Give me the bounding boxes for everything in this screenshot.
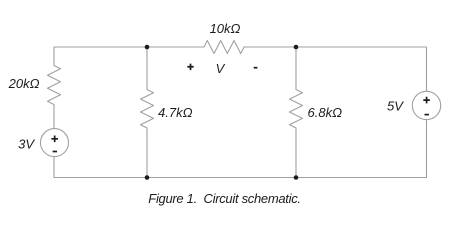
wire: middle branch 2 bottom [295, 128, 297, 178]
wire: top-right segment [244, 46, 427, 48]
svg-text:Figure 1. Circuit schematic.: Figure 1. Circuit schematic. [148, 191, 300, 206]
svg-text:3V: 3V [18, 137, 35, 152]
wire: middle branch 1 bottom [146, 128, 148, 178]
voltage source V1 3V circle [41, 129, 69, 157]
wire: right branch bottom [426, 120, 428, 178]
wire: top-left segment [54, 46, 204, 48]
wire: middle branch 1 top [146, 47, 148, 90]
label minus (right of V) [254, 67, 258, 69]
wire: left branch top [53, 47, 55, 66]
node junction bottom-right [294, 175, 299, 180]
svg-text:20kΩ: 20kΩ [8, 76, 40, 91]
V2 plus sign [423, 97, 430, 104]
wire: right branch top [426, 47, 428, 91]
svg-text:10kΩ: 10kΩ [210, 21, 241, 36]
wire: bottom [54, 177, 427, 179]
V1 plus sign [51, 136, 58, 143]
svg-text:6.8kΩ: 6.8kΩ [308, 105, 343, 120]
wire: middle branch 2 top [295, 47, 297, 90]
V2 minus sign [425, 114, 429, 116]
resistor R4 6.8k [290, 90, 303, 129]
svg-text:V: V [216, 61, 226, 76]
node junction top-right [294, 45, 299, 50]
resistor R1 10k (top) [204, 41, 244, 54]
svg-text:4.7kΩ: 4.7kΩ [158, 105, 193, 120]
svg-text:5V: 5V [387, 99, 404, 114]
resistor R2 20k (left) [48, 66, 61, 105]
node junction bottom-left [145, 175, 150, 180]
label plus (left of V) [187, 64, 193, 71]
resistor R3 4.7k (middle) [141, 90, 154, 129]
V1 minus sign [53, 151, 57, 153]
node junction top-left [145, 45, 150, 50]
voltage source V2 5V circle [412, 91, 440, 119]
wire: left branch bottom [53, 157, 55, 178]
wire: left branch mid [53, 105, 55, 129]
